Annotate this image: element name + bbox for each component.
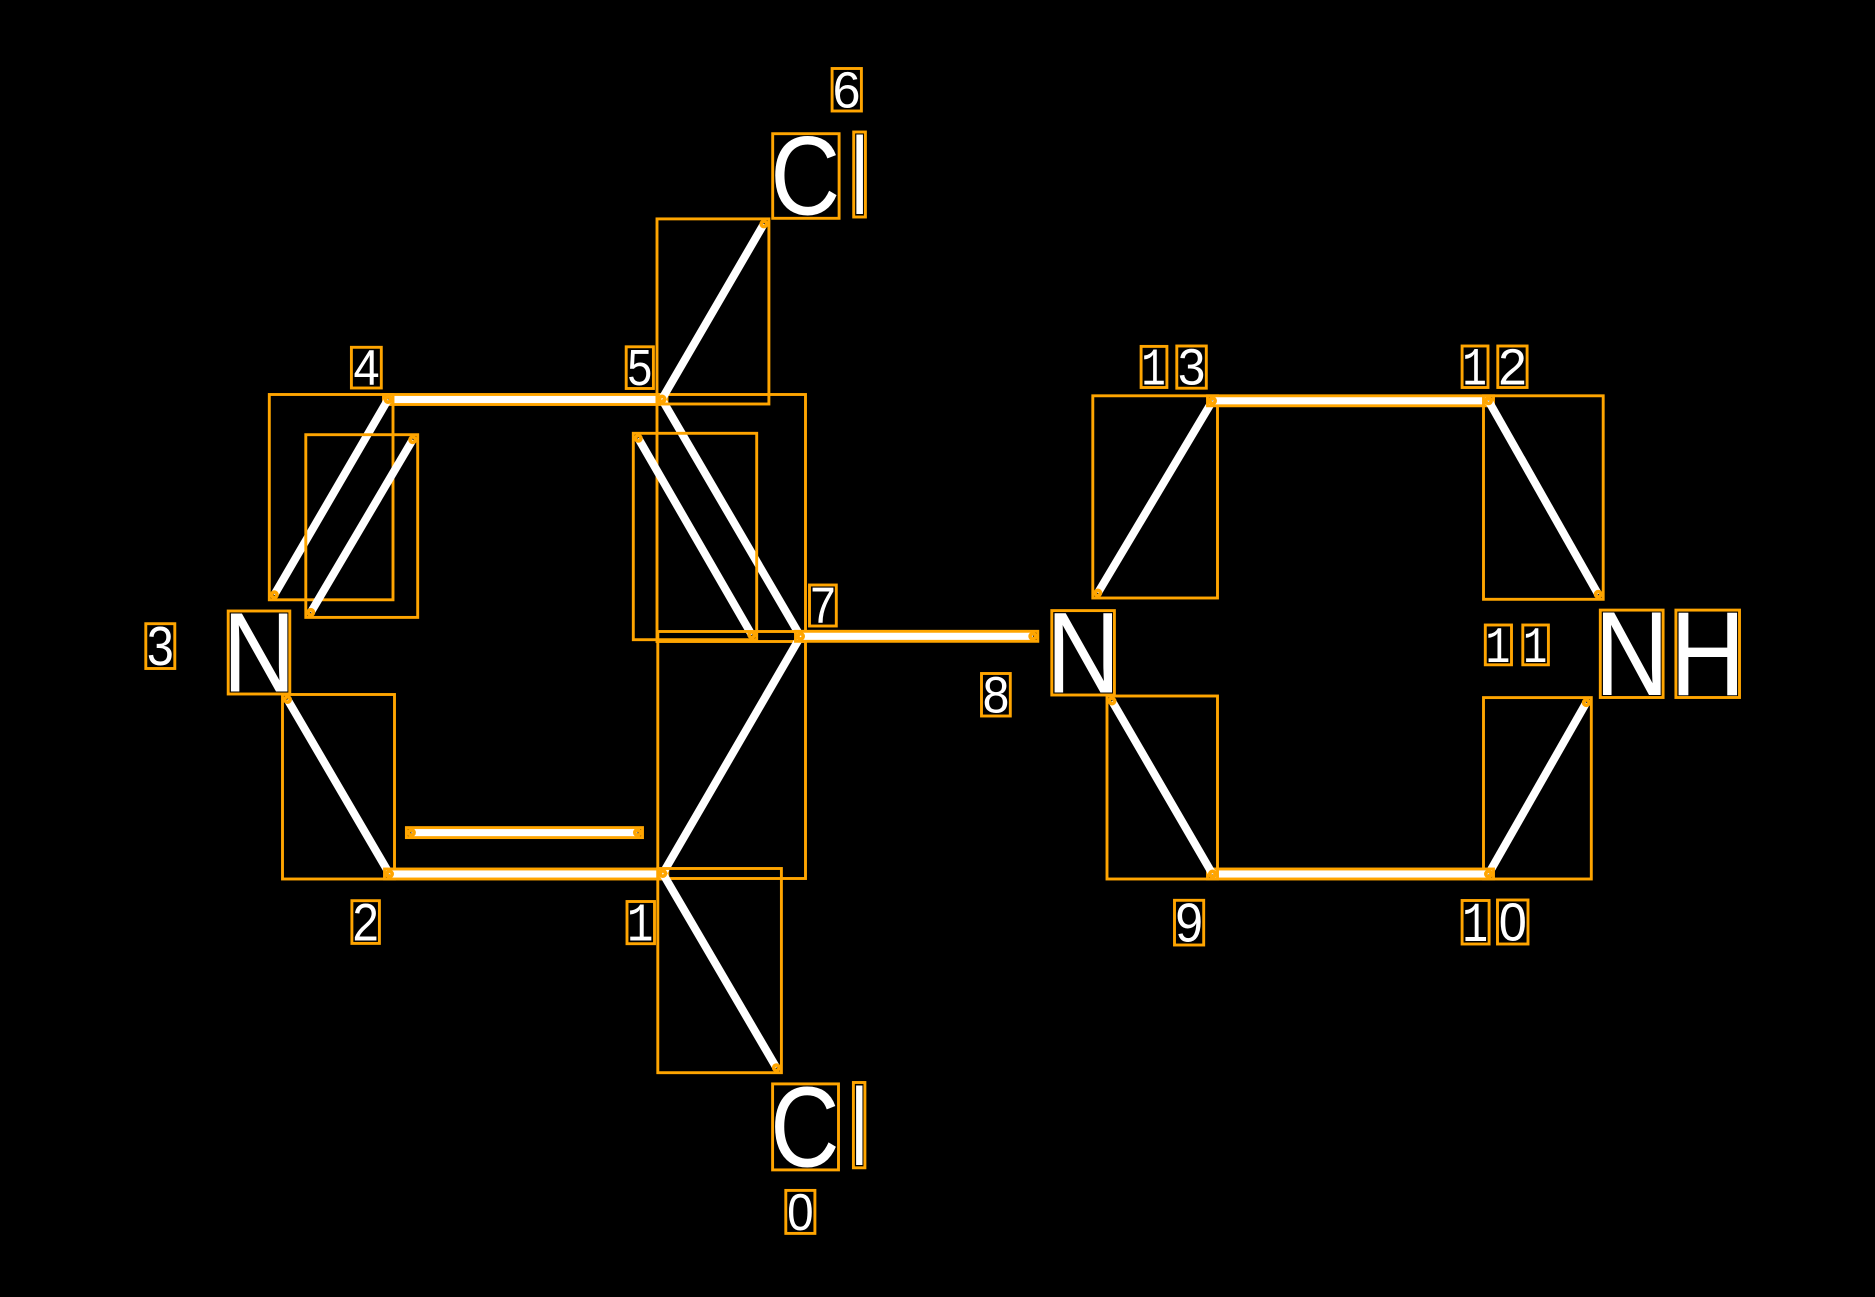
atom label C of Cl (atom 6) xyxy=(770,114,840,239)
bond N11-10 xyxy=(1484,698,1592,879)
bond 13-12 xyxy=(1208,396,1494,406)
bond 7-N8 xyxy=(796,631,1038,641)
svg-text:1: 1 xyxy=(1462,895,1488,959)
svg-text:N: N xyxy=(1046,589,1120,718)
svg-text:N: N xyxy=(223,589,296,716)
atom label H of NH (atom 11) xyxy=(1670,587,1746,721)
index label 3 xyxy=(146,615,175,676)
bond 4-5 xyxy=(384,395,668,405)
atom label N (atom 3) xyxy=(223,589,296,716)
index label 10 digit 0 xyxy=(1498,893,1529,953)
bond 7-1 xyxy=(658,632,806,879)
svg-text:1: 1 xyxy=(1485,620,1510,678)
bond 9-N8 xyxy=(1107,696,1218,879)
svg-text:1: 1 xyxy=(1462,341,1487,402)
index label 5 xyxy=(626,340,653,396)
atom label N (atom 8) xyxy=(1046,589,1120,718)
index label 9 xyxy=(1175,893,1204,953)
index label 2 xyxy=(352,893,380,952)
bond 5-7 line 1 xyxy=(657,395,806,642)
atom label l of Cl (atom 6) xyxy=(851,115,868,238)
svg-text:1: 1 xyxy=(1523,620,1547,678)
svg-text:H: H xyxy=(1670,587,1746,721)
index label 13 digit 1 xyxy=(1141,342,1167,401)
atom label N of NH (atom 11) xyxy=(1595,587,1670,721)
index label 7 xyxy=(810,578,837,635)
index label 12 digit 2 xyxy=(1498,339,1527,396)
bond 5-7 line 2 xyxy=(633,433,756,639)
index label 6 xyxy=(832,61,861,119)
bond 10-9 xyxy=(1208,869,1494,879)
bond N3-2 xyxy=(283,695,395,880)
svg-text:1: 1 xyxy=(1141,342,1166,401)
atom label C of Cl (atom 0) xyxy=(770,1065,839,1192)
bond 12-N11 xyxy=(1484,396,1604,600)
index label 12 digit 1 xyxy=(1462,341,1488,402)
bond N8-13 xyxy=(1093,396,1218,598)
bond 5-Cl6 xyxy=(657,219,769,404)
bond 4-N3 line 2 xyxy=(306,435,418,618)
index label 11 second digit 1 xyxy=(1523,620,1549,678)
index label 11 digit 1 xyxy=(1485,620,1511,678)
index label 8 xyxy=(982,667,1011,724)
atom label l of Cl (atom 0) xyxy=(851,1065,867,1188)
svg-text:1: 1 xyxy=(627,895,654,958)
index label 0 xyxy=(786,1183,815,1241)
index label 1 xyxy=(627,895,655,958)
index label 4 xyxy=(351,340,381,396)
bond 2-1 line 2 xyxy=(406,828,642,838)
bond 4-N3 line 1 xyxy=(269,395,393,600)
svg-text:N: N xyxy=(1595,587,1670,721)
index label 13 digit 3 xyxy=(1177,339,1207,396)
bond 1-Cl0 xyxy=(658,869,782,1073)
bond 2-1 line 1 xyxy=(385,869,668,879)
index label 10 digit 1 xyxy=(1462,895,1489,959)
